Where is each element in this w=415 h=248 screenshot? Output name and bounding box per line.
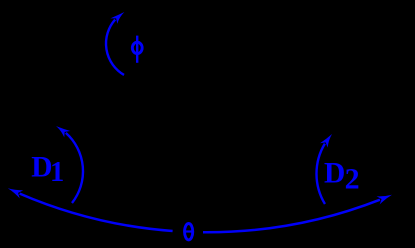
wire theta arc right segment bbox=[203, 200, 380, 233]
svg-text:D: D bbox=[324, 158, 345, 190]
svg-text:1: 1 bbox=[50, 157, 64, 188]
arrowhead D1 arc bbox=[56, 126, 70, 137]
label theta bbox=[184, 224, 193, 240]
label D1 bbox=[31, 151, 64, 188]
arrowhead theta arc right end bbox=[377, 195, 392, 205]
wire phi arc bbox=[106, 20, 124, 75]
arrowhead D2 arc bbox=[320, 134, 332, 147]
label D2 bbox=[324, 158, 360, 196]
label phi bbox=[132, 36, 142, 63]
wire D1 arc bbox=[66, 133, 83, 203]
arrowhead phi arc bbox=[110, 12, 124, 24]
arrowhead theta arc left end bbox=[8, 188, 23, 198]
wire D2 arc bbox=[317, 144, 325, 204]
wire theta arc left segment bbox=[20, 194, 173, 231]
svg-text:2: 2 bbox=[345, 163, 360, 196]
